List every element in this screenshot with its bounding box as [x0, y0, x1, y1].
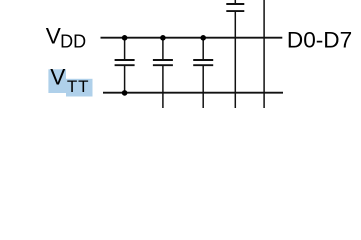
wire vertical bus line — [263, 0, 265, 108]
capacitor C1 — [115, 38, 135, 93]
highlight box over TT subscript — [66, 79, 93, 97]
junction dot on VDD rail at C3 — [200, 35, 206, 41]
capacitor C2 — [153, 38, 173, 108]
capacitor C3 — [193, 38, 213, 108]
wire VTT rail — [103, 92, 283, 94]
highlight box over V of VTT — [48, 69, 66, 93]
svg-text:DD: DD — [60, 32, 86, 52]
junction dot on VTT rail at C1 — [122, 90, 128, 96]
svg-text:V: V — [50, 65, 65, 90]
svg-text:TT: TT — [67, 77, 89, 96]
svg-text:V: V — [46, 23, 61, 48]
junction dot on VDD rail at C1 — [122, 35, 128, 41]
junction dot on VDD rail at C2 — [160, 35, 166, 41]
capacitor C4 (top, partially cropped) — [226, 0, 244, 108]
wire VDD rail — [101, 37, 283, 39]
svg-text:D0-D7: D0-D7 — [287, 27, 352, 52]
